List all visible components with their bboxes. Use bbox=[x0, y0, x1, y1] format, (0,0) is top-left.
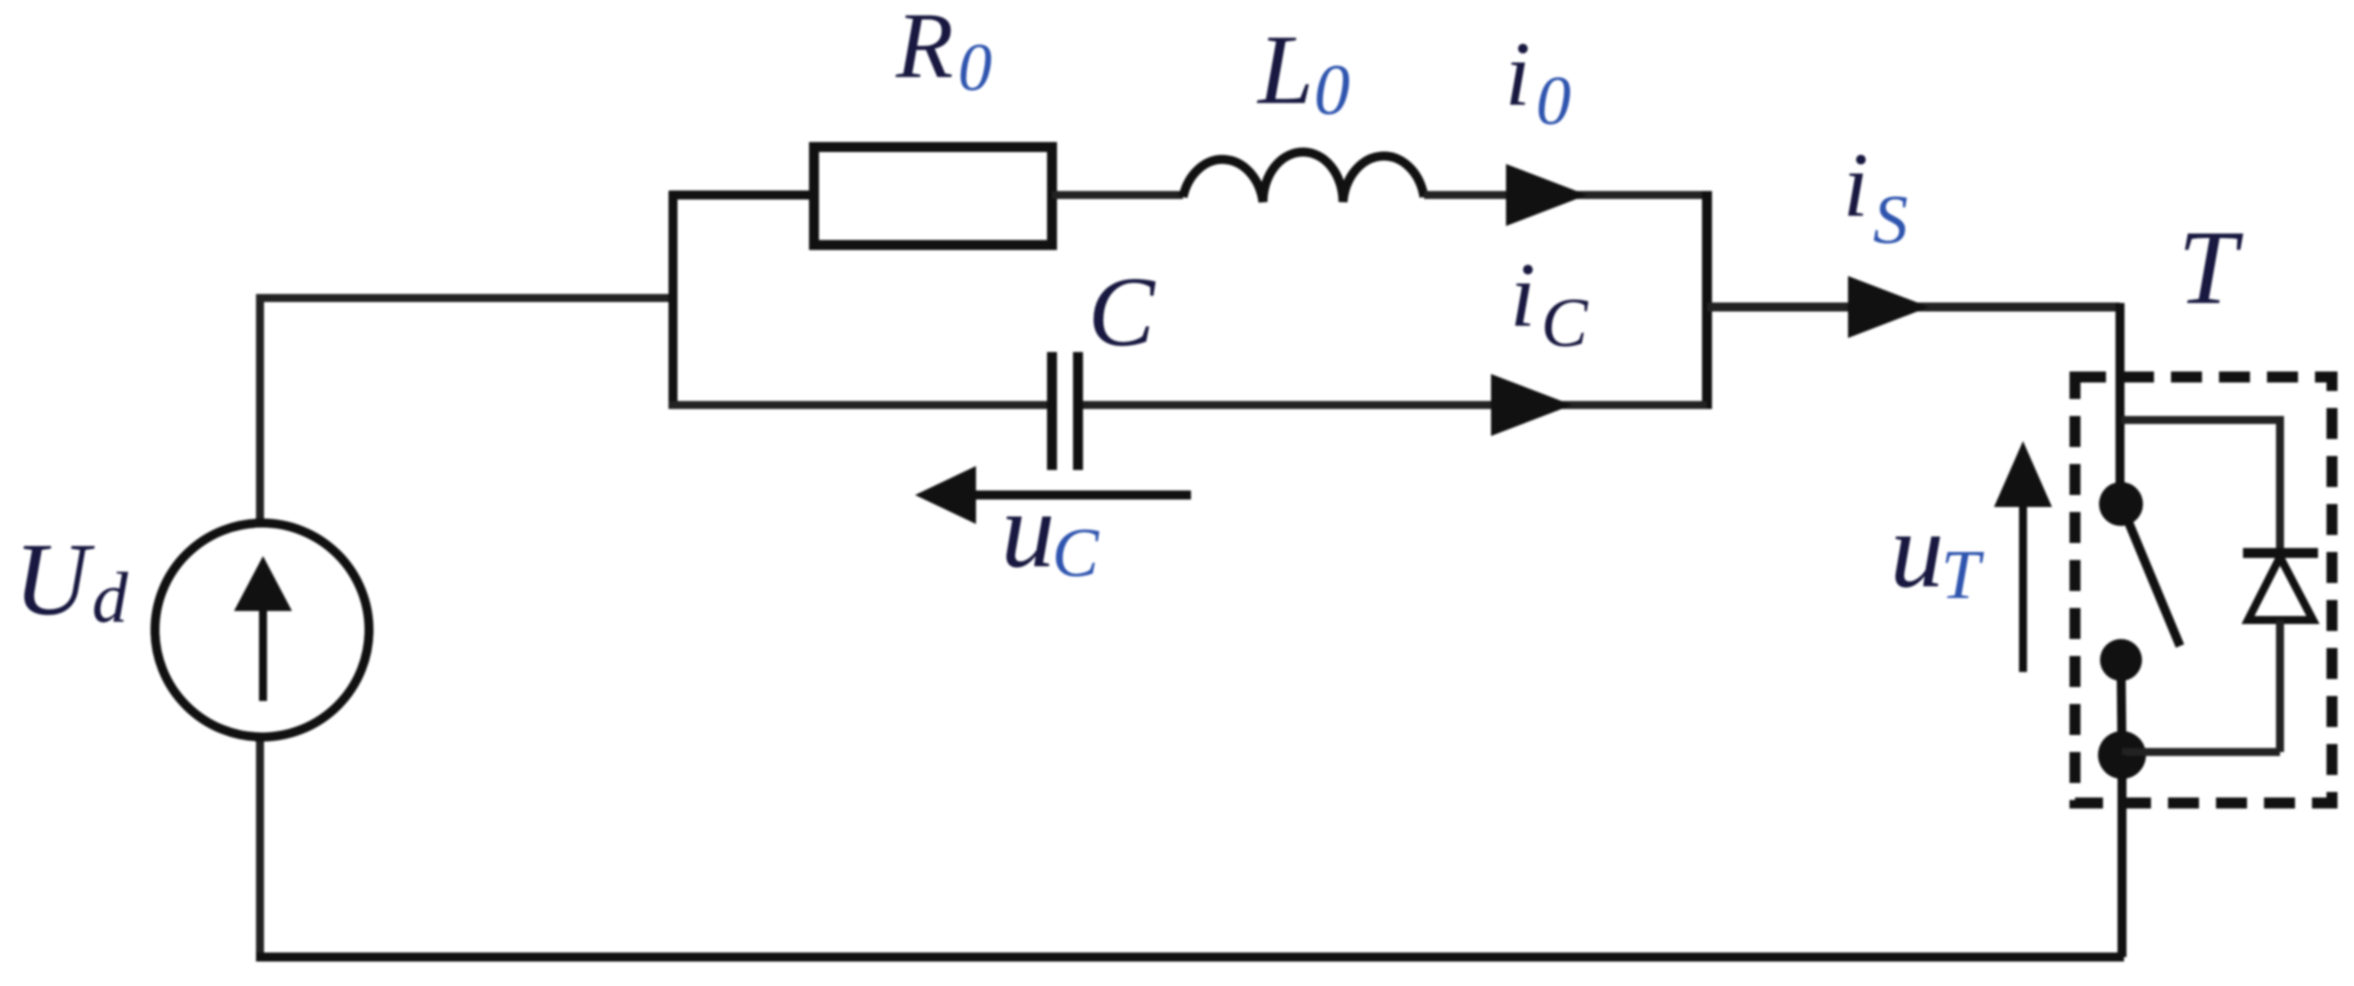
capacitor C bbox=[1052, 352, 1078, 470]
label R0 bbox=[895, 0, 992, 105]
switch blade bbox=[2121, 504, 2180, 646]
wire resistor to inductor bbox=[1052, 191, 1183, 199]
svg-text:i: i bbox=[1843, 134, 1869, 236]
label i0 bbox=[1505, 23, 1571, 140]
wire inner loop bottom bbox=[2122, 748, 2280, 756]
voltage arrow uC bbox=[915, 466, 1191, 524]
voltage arrow uT bbox=[1994, 441, 2052, 672]
svg-text:C: C bbox=[1088, 256, 1156, 367]
svg-text:i: i bbox=[1510, 244, 1536, 346]
wire top branch junction to resistor bbox=[669, 191, 814, 200]
node left junction bar bbox=[669, 191, 678, 409]
wire inner loop right upper bbox=[2276, 416, 2284, 553]
label Ud bbox=[14, 522, 129, 638]
current arrow iC bbox=[1491, 374, 1572, 436]
label uT bbox=[1890, 491, 1985, 614]
switch contact dot upper bbox=[2099, 482, 2143, 526]
wire switch middle to lower dot bbox=[2121, 660, 2122, 755]
svg-text:T: T bbox=[2178, 209, 2244, 326]
wire T bottom vertical bbox=[2118, 755, 2127, 957]
diode D cathode bar bbox=[2243, 548, 2318, 558]
svg-text:S: S bbox=[1873, 182, 1908, 259]
diode D triangle bbox=[2248, 557, 2313, 620]
wire inductor to right junction bbox=[1424, 191, 1707, 199]
svg-text:i: i bbox=[1505, 23, 1531, 125]
wire source bottom vertical bbox=[256, 740, 264, 957]
svg-text:0: 0 bbox=[958, 29, 992, 105]
svg-text:C: C bbox=[1052, 515, 1100, 592]
label uC bbox=[1001, 471, 1100, 592]
resistor R0 bbox=[814, 147, 1052, 245]
current arrow iS bbox=[1848, 276, 1929, 338]
svg-text:0: 0 bbox=[1536, 63, 1571, 140]
inductor L0 bbox=[1183, 152, 1424, 202]
thyristor T dashed box bbox=[2075, 377, 2332, 803]
wire iS from right junction to T bbox=[1707, 303, 2120, 312]
label iS bbox=[1843, 134, 1908, 259]
wire T top vertical bbox=[2116, 303, 2125, 504]
svg-text:d: d bbox=[92, 558, 129, 638]
svg-text:U: U bbox=[14, 522, 95, 637]
wire inner loop top bbox=[2121, 416, 2280, 424]
svg-text:0: 0 bbox=[1314, 50, 1350, 130]
switch contact dot lower bbox=[2098, 731, 2146, 779]
svg-text:u: u bbox=[1001, 471, 1055, 590]
switch contact dot middle bbox=[2100, 639, 2142, 681]
wire bottom branch junction to capacitor bbox=[669, 401, 1048, 409]
svg-text:T: T bbox=[1941, 537, 1985, 614]
wire capacitor to right junction bbox=[1083, 401, 1707, 409]
svg-text:C: C bbox=[1541, 285, 1589, 362]
svg-text:u: u bbox=[1890, 491, 1944, 610]
label L0 bbox=[1256, 14, 1350, 130]
node right junction bar bbox=[1702, 191, 1712, 409]
current source Ud bbox=[155, 523, 369, 737]
svg-text:L: L bbox=[1256, 14, 1314, 125]
wire bottom horizontal bbox=[256, 953, 2124, 962]
svg-text:R: R bbox=[895, 0, 953, 98]
wire source top vertical bbox=[256, 294, 264, 522]
label iC bbox=[1510, 244, 1589, 362]
wire inner loop right lower bbox=[2276, 620, 2284, 752]
wire left main horizontal from source to left junction bbox=[260, 294, 673, 302]
current arrow i0 bbox=[1506, 164, 1587, 226]
